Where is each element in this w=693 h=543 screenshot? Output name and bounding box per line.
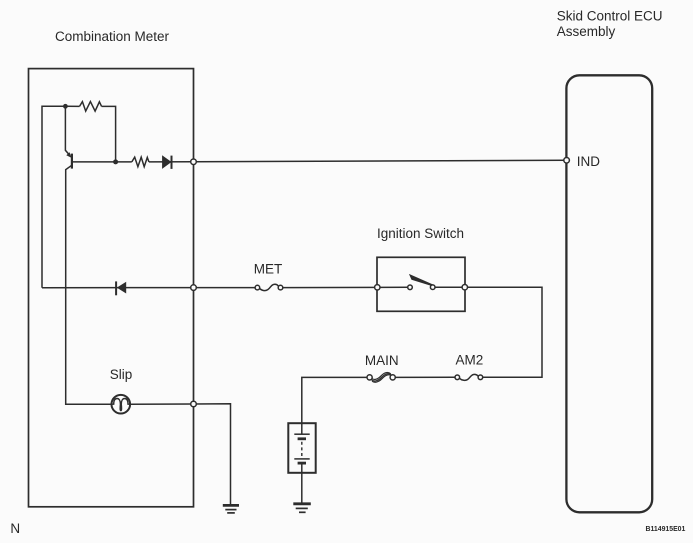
svg-text:Skid Control ECU: Skid Control ECU — [557, 8, 663, 23]
svg-text:Combination Meter: Combination Meter — [55, 29, 170, 44]
svg-text:Slip: Slip — [110, 367, 133, 382]
svg-text:IND: IND — [577, 154, 601, 169]
svg-text:N: N — [10, 521, 20, 536]
svg-text:AM2: AM2 — [456, 353, 484, 368]
svg-text:MAIN: MAIN — [365, 353, 399, 368]
svg-text:Assembly: Assembly — [557, 24, 616, 39]
svg-text:B114915E01: B114915E01 — [646, 526, 686, 533]
svg-text:Ignition Switch: Ignition Switch — [377, 226, 464, 241]
svg-text:MET: MET — [254, 261, 282, 276]
